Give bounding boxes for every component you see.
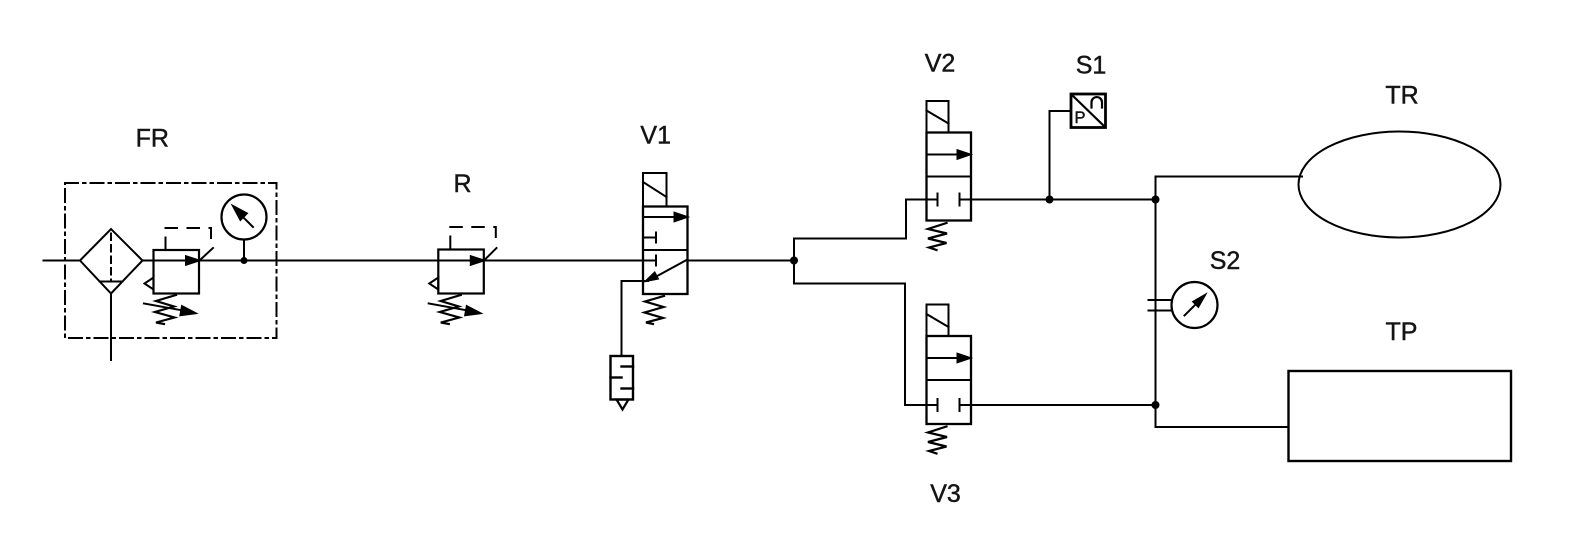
valve V1 solenoid <box>643 173 667 207</box>
enclosure FR <box>65 183 277 338</box>
valve V2 body <box>927 133 972 221</box>
svg-text:S2: S2 <box>1210 247 1241 275</box>
valve V3 body <box>927 336 972 424</box>
silencer V1 exhaust <box>611 356 634 410</box>
valve V1 body <box>643 207 688 295</box>
svg-text:TR: TR <box>1385 81 1418 109</box>
svg-text:FR: FR <box>136 124 169 152</box>
wire filter to regulator <box>143 260 154 262</box>
pressure gauge S2 <box>1149 282 1218 328</box>
spring V3 <box>928 427 947 454</box>
wire bus to TR <box>1156 176 1303 178</box>
chamber TP <box>1289 371 1512 461</box>
pressure sensor S1 <box>1071 94 1106 128</box>
wire V2 output <box>971 199 1156 201</box>
spring V2 <box>928 223 947 250</box>
node S1 tap <box>1046 196 1054 204</box>
wire branch to V3 <box>794 284 927 406</box>
svg-text:V1: V1 <box>640 122 671 150</box>
pressure gauge (FR unit) <box>222 195 267 261</box>
reservoir TR <box>1299 132 1501 238</box>
svg-text:S1: S1 <box>1076 52 1107 80</box>
valve V3 solenoid <box>927 305 949 337</box>
svg-text:V2: V2 <box>925 50 956 78</box>
wire V1 exhaust <box>622 281 649 356</box>
wire supply inlet <box>44 260 81 262</box>
wire V3 output <box>971 404 1156 406</box>
spring V1 <box>645 296 665 324</box>
svg-text:V3: V3 <box>930 480 961 508</box>
wire S1 connection <box>1050 111 1072 200</box>
node FR gauge tap <box>241 257 248 264</box>
node bus top <box>1152 196 1160 204</box>
wire bus to TP <box>1156 426 1289 428</box>
wire V1 to branch node <box>688 260 795 262</box>
svg-text:R: R <box>453 170 471 198</box>
wire bus vertical <box>1155 177 1157 428</box>
wire branch riser <box>793 239 795 284</box>
wire FR to R <box>199 260 438 262</box>
regulator R <box>429 227 497 324</box>
svg-text:P: P <box>1075 109 1086 127</box>
svg-text:TP: TP <box>1386 318 1418 346</box>
wire branch to V2 <box>794 200 927 239</box>
regulator (FR unit) <box>144 228 213 324</box>
wire R to V1 <box>484 260 643 262</box>
node bus bottom <box>1152 401 1160 409</box>
wire condensate drain <box>110 294 112 361</box>
filter F (FR unit) <box>80 229 143 294</box>
node branch junction <box>790 257 798 265</box>
valve V2 solenoid <box>927 101 949 133</box>
